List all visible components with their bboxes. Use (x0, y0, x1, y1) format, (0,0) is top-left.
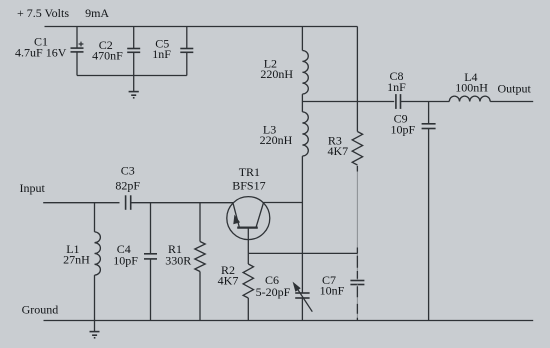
label L3 value (260, 123, 293, 147)
svg-text:220nH: 220nH (260, 133, 293, 147)
label C4 value (113, 242, 138, 267)
capacitor C1 (71, 42, 84, 52)
svg-text:BFS17: BFS17 (232, 179, 265, 193)
wire R2 bottom lead (247, 298, 249, 321)
wire L3 bottom to collector node and down to C6 (301, 156, 303, 293)
wire top supply rail (45, 26, 358, 28)
wire decoupling bottom bus (77, 75, 187, 77)
inductor L1 (95, 232, 101, 275)
wire R1 bottom lead (199, 272, 201, 321)
wire C6 bottom lead (301, 298, 303, 321)
label TR1 (232, 165, 265, 193)
ground (decoupling) (129, 92, 139, 98)
svg-text:4K7: 4K7 (218, 274, 239, 288)
wire R1 top lead (199, 203, 201, 242)
wire C2 bottom lead (133, 52, 135, 75)
node Input label (20, 181, 46, 195)
wire L1 top lead (94, 203, 96, 232)
svg-text:TR1: TR1 (239, 165, 260, 179)
label C6 value (256, 273, 291, 299)
svg-text:220nH: 220nH (260, 67, 293, 81)
transistor TR1 collector slant (256, 203, 263, 227)
inductor L3 (302, 112, 308, 156)
capacitor C7 (350, 281, 364, 285)
wire input line right to transistor base (131, 202, 233, 204)
transistor TR1 circle (227, 197, 270, 240)
svg-text:+ 7.5 Volts: + 7.5 Volts (17, 6, 69, 20)
wire C1 bottom lead (76, 52, 78, 76)
wire C5 top lead (186, 27, 188, 49)
svg-text:C3: C3 (121, 164, 135, 178)
transistor TR1 base bar (237, 227, 258, 229)
wire C5 bottom lead (186, 52, 188, 75)
transistor TR1 emitter arrow (233, 215, 240, 225)
wire L2 top lead (301, 27, 303, 51)
label C3 value (115, 164, 140, 193)
wire L2 to L3 (301, 94, 303, 112)
svg-text:4.7uF 16V: 4.7uF 16V (15, 46, 67, 60)
capacitor C3 (126, 195, 131, 210)
svg-text:10pF: 10pF (391, 123, 416, 137)
wire C9 top lead (428, 102, 430, 124)
wire R3 bottom to C7 (356, 165, 358, 281)
label C7 value (320, 273, 345, 298)
svg-text:9mA: 9mA (85, 6, 109, 20)
svg-text:4K7: 4K7 (327, 144, 348, 158)
svg-text:Output: Output (498, 82, 532, 96)
svg-text:Input: Input (20, 181, 46, 195)
capacitor C5 (180, 49, 193, 53)
capacitor C2 (127, 49, 140, 53)
wire C8 to L4 (401, 101, 450, 103)
label C1 value (15, 35, 67, 60)
wire ground stub of decoupling bus (133, 76, 135, 92)
wire base lead down (247, 228, 249, 254)
inductor L2 (302, 51, 308, 95)
wire C2 top lead (133, 27, 135, 49)
wire L1 bottom lead through ground rail (94, 275, 96, 331)
svg-text:27nH: 27nH (63, 253, 90, 267)
resistor R2 (243, 264, 253, 298)
wire C9 bottom lead (428, 129, 430, 321)
node supply label +7.5 Volts (17, 6, 69, 20)
svg-text:470nF: 470nF (92, 49, 123, 63)
capacitor C9 (422, 124, 436, 129)
wire R2 top lead (247, 253, 249, 264)
svg-text:10nF: 10nF (320, 284, 345, 298)
wire output lead (490, 101, 533, 103)
wire input line left (43, 202, 119, 204)
wire right vertical from supply rail (356, 27, 358, 132)
label R1 value (165, 242, 191, 267)
label R2 value (218, 263, 239, 287)
label C5 value (152, 37, 171, 62)
label R3 value (327, 133, 348, 158)
capacitor C8 (396, 94, 401, 109)
wire collector node horizontal to output coupling (302, 101, 394, 103)
node Output label (498, 82, 532, 96)
svg-text:1nF: 1nF (387, 80, 406, 94)
svg-text:330R: 330R (165, 254, 191, 268)
wire collector to L3 node (263, 202, 302, 204)
transistor TR1 emitter slant (233, 203, 239, 227)
resistor R3 (352, 132, 362, 166)
node current label 9mA (85, 6, 109, 20)
label C8 value (387, 69, 406, 94)
inductor L4 (449, 96, 490, 101)
label L1 value (63, 242, 90, 267)
capacitor C4 (144, 254, 157, 259)
svg-text:5-20pF: 5-20pF (256, 285, 291, 299)
resistor R1 (195, 242, 205, 272)
label L2 value (260, 57, 293, 82)
capacitor C6 (trimmer) (295, 293, 309, 298)
label L4 value (455, 70, 488, 95)
svg-text:82pF: 82pF (115, 179, 140, 193)
svg-text:10pF: 10pF (113, 254, 138, 268)
wire C4 top lead (150, 203, 152, 254)
capacitor C6 trimmer arrow (293, 282, 313, 312)
wire C4 bottom lead (150, 259, 152, 321)
label C9 value (391, 112, 416, 137)
ground (input) (90, 332, 100, 338)
label C2 value (92, 38, 123, 62)
svg-text:1nF: 1nF (152, 47, 171, 61)
svg-text:Ground: Ground (22, 303, 59, 317)
wire ground rail (44, 320, 534, 322)
wire C7 bottom lead (356, 285, 358, 321)
wire base node horizontal (248, 252, 357, 254)
svg-text:100nH: 100nH (455, 81, 488, 95)
wire C1 top lead (76, 27, 78, 49)
node Ground label (22, 303, 59, 317)
